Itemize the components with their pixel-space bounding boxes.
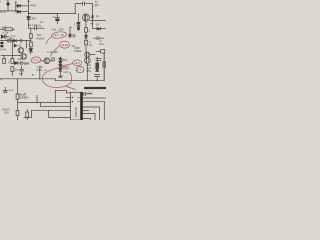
wire (corner x31.5) xyxy=(24,110,32,117)
svg-text:2.: 2. xyxy=(89,28,91,32)
small diode (center) xyxy=(12,41,16,56)
small element on wire x92.5 xyxy=(92,15,94,18)
node dots xyxy=(17,13,98,111)
diode (right col dark) xyxy=(85,35,88,40)
svg-text:C4964: C4964 xyxy=(74,49,82,53)
resistor (box B) xyxy=(11,55,14,63)
chain x30.8: resistor xyxy=(29,28,32,42)
middle-left: resistor Rh xyxy=(0,28,15,31)
wire (loop up to cap) xyxy=(75,4,82,14)
svg-text:RV6,8: RV6,8 xyxy=(37,37,45,41)
wire xyxy=(90,20,106,22)
svg-text:C+: C+ xyxy=(53,15,57,19)
transistor T05 xyxy=(41,58,52,64)
wire right edge xyxy=(103,53,105,81)
svg-text:C 1: C 1 xyxy=(88,91,93,95)
resistor R (right col 2) xyxy=(85,40,88,52)
svg-text:5.1: 5.1 xyxy=(78,68,82,72)
right chain x97.2 xyxy=(95,57,101,80)
thick bus (bottom right) xyxy=(84,87,106,89)
dark stack (left edge) xyxy=(0,42,3,48)
capacitor (in line) xyxy=(20,39,22,42)
wire (bus y40.6) xyxy=(0,40,31,42)
IC right pin wires xyxy=(83,97,107,99)
diode (y63) xyxy=(14,62,20,65)
svg-text:m: m xyxy=(0,78,2,81)
wire xyxy=(0,10,16,12)
capacitor (coupling, x35.8) xyxy=(35,26,44,30)
diode (in line) xyxy=(13,39,16,42)
red lead O3 xyxy=(63,64,73,66)
svg-text:t1,Ω: t1,Ω xyxy=(0,10,6,14)
svg-text:+6.5: +6.5 xyxy=(74,61,80,65)
svg-text:z4: z4 xyxy=(90,21,93,25)
svg-text:rw: rw xyxy=(40,20,43,24)
red text labels xyxy=(53,33,82,74)
diode D2 xyxy=(16,10,29,13)
wire (bus y110.3) xyxy=(32,109,71,111)
svg-text:4nv: 4nv xyxy=(9,36,14,40)
capacitor C1 (right of IC) xyxy=(83,92,93,95)
svg-text:(8V: (8V xyxy=(95,3,99,7)
resistor (in line) xyxy=(8,39,11,42)
wire xyxy=(92,21,94,29)
IC AN5435 xyxy=(67,92,83,120)
svg-text:pnV: pnV xyxy=(19,72,24,76)
svg-text:T-05: T-05 xyxy=(37,65,43,69)
svg-text:4.7w: 4.7w xyxy=(3,31,9,35)
red oval O1 (+3,7→0V) xyxy=(51,31,67,39)
diode D1 xyxy=(16,4,29,7)
svg-text:2nv: 2nv xyxy=(15,67,20,71)
wire (main rail y80.7) xyxy=(56,80,105,82)
red lead O1 xyxy=(46,37,52,45)
svg-text:B57: B57 xyxy=(63,58,68,62)
capacitor C11 (top-left blob) xyxy=(7,0,10,11)
svg-text:P4N: P4N xyxy=(30,3,36,7)
svg-text:4πw: 4πw xyxy=(99,43,104,46)
chain x30.8: diode down xyxy=(29,49,33,54)
paper background xyxy=(0,0,106,120)
wire (main rail y78.8) xyxy=(0,78,56,80)
red big loop xyxy=(42,66,71,87)
svg-text:(4.03→-9: (4.03→-9 xyxy=(36,69,47,72)
svg-text:24: 24 xyxy=(96,23,99,27)
svg-text:05V: 05V xyxy=(87,69,92,73)
diode D (far right) xyxy=(93,27,107,30)
svg-text:4,3µ→20V: 4,3µ→20V xyxy=(51,28,64,32)
resistor box (right of T05) xyxy=(52,58,55,61)
wire (x55.3 drop) xyxy=(54,91,56,103)
resistor (bottom, x27.2) xyxy=(26,109,29,120)
resistor (box A) xyxy=(3,59,6,64)
svg-text:D+V: D+V xyxy=(24,62,30,66)
wire xyxy=(15,2,17,12)
pot Einst (x17.5) xyxy=(16,79,19,120)
diode chain (x60.4, D457) xyxy=(59,57,63,78)
red oval O3 (+6.5) xyxy=(73,60,82,66)
resistor box (far right mid) xyxy=(97,50,105,81)
svg-text:665: 665 xyxy=(2,25,7,29)
red lead O2 xyxy=(50,46,60,57)
svg-text:+0,6V: +0,6V xyxy=(61,43,69,47)
svg-text:1W4: 1W4 xyxy=(18,57,24,61)
wire (top rail) xyxy=(29,13,76,15)
wire (x37 drop) xyxy=(36,96,38,103)
IC approach wires xyxy=(55,91,70,93)
capacitor C (top right) xyxy=(83,2,93,6)
diode (left edge arrow) xyxy=(1,35,8,39)
svg-text:1 nv: 1 nv xyxy=(9,88,15,92)
svg-text:02: 02 xyxy=(19,43,22,47)
svg-text:+3,7→0v: +3,7→0v xyxy=(53,33,64,37)
transistor T7 xyxy=(83,14,90,28)
resistor on right edge wire xyxy=(103,62,106,67)
red oval O5 (+0,4 left of T05) xyxy=(31,57,41,64)
zener diode D97 xyxy=(27,17,30,29)
capacitor (right, y38) xyxy=(94,37,104,40)
capacitor (vert, x21.6) xyxy=(20,66,24,75)
wire (H y55.4) xyxy=(1,54,21,56)
chain x30.8: resistor 2 xyxy=(29,42,32,49)
wire (x48.5 corner, y117.4) xyxy=(49,110,71,117)
transistor pair T6 xyxy=(85,52,96,81)
wire left col xyxy=(3,55,5,58)
svg-text:AN5435: AN5435 xyxy=(74,106,78,117)
resistor R (right col 1) xyxy=(85,28,88,36)
capacitor (y63) xyxy=(20,61,28,64)
svg-text:72k: 72k xyxy=(24,95,29,99)
red tail arrow xyxy=(67,87,76,90)
pot (x70-76 y35) xyxy=(69,27,75,37)
red oval O4 (5.1) xyxy=(76,66,84,72)
wire xyxy=(39,67,41,79)
resistor (box C) xyxy=(11,67,14,76)
wire (bus y102.6) xyxy=(18,102,71,104)
transistor T03 (upper) xyxy=(18,48,24,54)
wire (bus y106.3) xyxy=(41,103,71,107)
svg-text:2Vv: 2Vv xyxy=(4,110,9,114)
wire (rectifier output rail) xyxy=(28,0,30,17)
zener + box (x78.5 top) xyxy=(77,14,80,31)
capacitor C+ electrolytic xyxy=(55,14,59,24)
wire lower xyxy=(29,27,35,29)
wire xyxy=(25,41,27,48)
svg-text:D97: D97 xyxy=(31,17,37,21)
svg-text:4n: 4n xyxy=(96,14,99,18)
svg-text:D+N: D+N xyxy=(1,47,7,51)
transistor T04 (lower) xyxy=(21,54,27,60)
wire xyxy=(92,4,94,21)
cap to gnd (x5.3) xyxy=(3,87,7,92)
red oval O2 (+0,6V) xyxy=(60,41,70,48)
svg-text:+4C: +4C xyxy=(63,70,68,74)
svg-text:4,7µ: 4,7µ xyxy=(36,24,42,28)
